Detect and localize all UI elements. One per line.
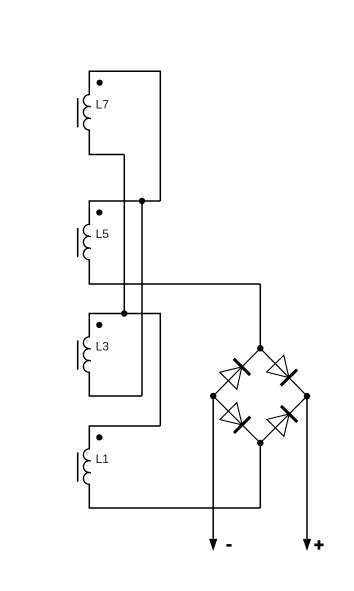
wire vertical down to bridge top node	[259, 284, 261, 348]
diode D2 upper-right	[267, 355, 297, 385]
wire L5 coil bottom down	[88, 259, 90, 284]
inductor L1	[78, 449, 91, 484]
wire L5 left lead down to coil	[88, 200, 90, 225]
polarity dot L1	[96, 434, 102, 440]
wire L3 right vertical down to L1 top	[159, 313, 161, 426]
arrow positive terminal	[303, 539, 311, 551]
wire bridge edge bottom-right	[260, 396, 307, 443]
wire L1 coil bottom down	[88, 484, 90, 508]
label - (minus)	[226, 544, 231, 547]
junction dot bridge right node	[304, 393, 310, 399]
svg-text:L5: L5	[96, 227, 110, 241]
wire L3 coil bottom down	[88, 372, 90, 396]
wire L7 left lead down to coil	[88, 71, 90, 96]
junction dot bridge top node	[257, 345, 263, 351]
diode D3 lower-left	[220, 403, 250, 433]
junction dot bridge bottom node	[257, 440, 263, 446]
svg-text:L1: L1	[96, 452, 110, 466]
wire L1 bottom horizontal to bridge bottom branch	[89, 507, 261, 509]
wire positive output vertical	[306, 396, 308, 539]
junction dot node L5-top / L3-bottom tie	[139, 198, 145, 204]
wire bridge edge left-top	[213, 348, 260, 396]
wire L7 coil bottom down	[88, 129, 90, 154]
wire bridge edge left-bottom	[213, 396, 260, 443]
wire bridge edge top-right	[260, 348, 307, 396]
wire L1 top horizontal	[89, 425, 160, 427]
junction dot L3 top	[121, 310, 127, 316]
wire L1 left lead down to coil	[88, 425, 90, 449]
polarity dot L7	[97, 80, 103, 86]
wire L3 left lead down to coil	[88, 313, 90, 338]
arrow negative terminal	[209, 539, 217, 551]
diode D4 lower-right	[267, 406, 297, 436]
inductor L7	[78, 95, 91, 130]
svg-text:L3: L3	[96, 340, 110, 354]
wire L7 top horizontal	[89, 70, 160, 72]
inductor L5	[78, 224, 91, 259]
wire negative output vertical	[212, 396, 214, 539]
wire L7 bottom jog horizontal	[89, 154, 125, 156]
polarity dot L5	[96, 209, 102, 215]
inductor L3	[78, 337, 91, 372]
wire vertical from junction down to L3 bottom	[141, 201, 143, 396]
wire L3 bottom horizontal	[89, 395, 142, 397]
label + (plus)	[314, 540, 323, 549]
diode D1 upper-left	[220, 359, 250, 389]
polarity dot L3	[96, 322, 102, 328]
wire L7 right vertical down	[159, 71, 161, 201]
svg-text:L7: L7	[96, 97, 110, 111]
wire L5 bottom horizontal to bridge top branch	[89, 283, 261, 285]
wire L5 top horizontal	[89, 200, 160, 202]
junction dot bridge left node	[210, 393, 216, 399]
wire vertical from bridge bottom node down	[259, 443, 261, 508]
wire L3 top horizontal	[89, 313, 160, 315]
wire vertical from L7 bottom to L3 top junction	[123, 155, 125, 314]
